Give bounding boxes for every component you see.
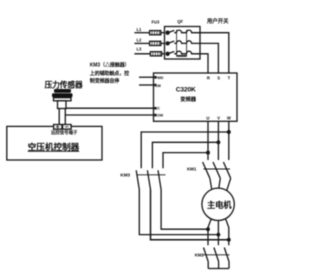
svg-text:主电机: 主电机 <box>207 200 232 210</box>
wire fuse1 to QF <box>161 32 165 34</box>
inverter U1 C320K box <box>154 73 238 121</box>
wire sensor lead right <box>64 109 66 125</box>
pressure sensor body <box>52 89 73 109</box>
wire KM2 pole1 bottom <box>207 262 209 269</box>
QF linkage verticals <box>177 30 187 57</box>
wire motor lead right down <box>226 219 229 245</box>
svg-text:KM3（△接触器）: KM3（△接触器） <box>90 62 130 69</box>
contactor KM1 blades <box>203 162 231 178</box>
svg-text:KM1: KM1 <box>187 167 197 172</box>
svg-text:用户开关: 用户开关 <box>207 17 229 25</box>
fuse FU L1 <box>150 31 161 35</box>
wire KM3 pole1 down to mid lead <box>139 190 218 235</box>
motor M circle <box>202 188 234 220</box>
wire L3 input <box>134 53 150 55</box>
wire sensor lead left <box>58 109 60 125</box>
wire stub FWD <box>139 76 154 78</box>
wire KM2 pole2 bottom <box>218 262 220 269</box>
wire KM1 pole2 to motor <box>219 178 221 188</box>
wire fuse3 to QF <box>162 53 165 55</box>
wire KM3 pole3 down to left lead <box>161 190 208 230</box>
wire QF row2 to S <box>200 43 218 73</box>
wire V tap to KM3 pole2 <box>152 142 218 168</box>
svg-text:L3: L3 <box>137 47 143 52</box>
node V tap <box>217 141 220 144</box>
QF pole 1 <box>166 30 200 34</box>
fuse FU L2 <box>150 41 161 45</box>
wire QF row3 to R <box>200 54 208 73</box>
node W tap <box>228 131 231 134</box>
wire W tap to KM3 pole1 <box>141 132 229 168</box>
node bottom left <box>207 228 210 231</box>
contactor KM3 blades <box>136 170 165 189</box>
controller terminal + <box>54 125 62 130</box>
wire sensor to COM <box>65 114 153 116</box>
terminal nub CC <box>154 107 157 109</box>
wire W output <box>228 121 230 160</box>
svg-text:CC: CC <box>155 107 161 111</box>
node bottom mid <box>217 233 220 236</box>
wire L2 input <box>134 42 149 44</box>
wire U tap to KM3 pole3 <box>163 153 208 169</box>
svg-text:W: W <box>227 115 231 120</box>
svg-text:远控信号端子: 远控信号端子 <box>51 129 78 136</box>
svg-text:V: V <box>217 115 220 120</box>
svg-text:C320K: C320K <box>176 87 196 94</box>
svg-text:压力传感器: 压力传感器 <box>45 79 83 89</box>
wire KM2 pole3 bottom <box>228 262 230 269</box>
contactor KM2 blades <box>203 248 230 262</box>
node U tap <box>207 151 210 154</box>
wire sensor to CC <box>66 107 154 109</box>
svg-text:变频器: 变频器 <box>180 95 197 103</box>
wire KM1 pole1 to motor <box>210 178 212 190</box>
svg-text:KM3: KM3 <box>120 172 130 177</box>
svg-text:T: T <box>228 75 231 80</box>
QF pole 2 <box>166 41 200 45</box>
wire stub CM <box>139 84 154 86</box>
fuse FU L3 <box>150 52 161 56</box>
node bottom right <box>228 238 231 241</box>
svg-text:制变频器自停: 制变频器自停 <box>90 77 120 84</box>
wire L1 input <box>134 32 149 34</box>
svg-text:KM2: KM2 <box>195 253 205 258</box>
svg-text:COM: COM <box>155 113 163 117</box>
wire motor lead left down <box>208 219 211 245</box>
svg-text:QF: QF <box>177 19 183 24</box>
svg-text:FWD: FWD <box>155 76 164 80</box>
svg-text:上的辅助触点，控: 上的辅助触点，控 <box>90 70 129 77</box>
svg-text:S: S <box>217 75 220 80</box>
wire fuse2 to QF <box>161 42 165 44</box>
svg-text:L2: L2 <box>137 38 143 43</box>
svg-text:FU3: FU3 <box>152 20 160 25</box>
terminal nub FWD <box>154 76 157 78</box>
breaker QF box <box>165 27 201 60</box>
wire QF row1 to T <box>200 33 229 73</box>
wire KM1 pole3 to motor <box>227 178 231 190</box>
svg-text:L1: L1 <box>137 27 143 32</box>
terminal nub COM <box>154 114 157 116</box>
wire U output <box>207 121 209 160</box>
QF pole 3 <box>166 51 200 55</box>
wire KM3 pole2 down to right lead <box>151 190 229 240</box>
wire motor lead mid down <box>217 221 219 246</box>
terminal nub CM <box>154 84 157 86</box>
svg-text:R: R <box>207 75 210 80</box>
controller terminal - <box>63 125 72 130</box>
controller box <box>7 126 102 160</box>
svg-text:空压机控制器: 空压机控制器 <box>28 141 80 152</box>
svg-text:CM: CM <box>155 84 161 88</box>
wire V output <box>217 121 219 160</box>
svg-text:U: U <box>206 115 209 120</box>
wire KM2 star bar <box>208 268 229 270</box>
